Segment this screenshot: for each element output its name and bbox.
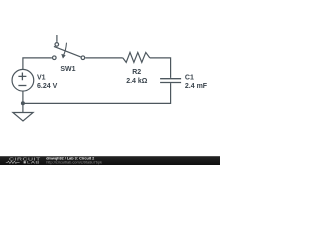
capacitor C1 [160,79,181,83]
wire resistor to top-right corner down to capacitor [150,58,171,78]
label SW1 [60,66,75,73]
wire junction down to ground [22,103,24,112]
wire from V1 top up and right to switch left terminal [23,58,52,70]
label R2 [132,69,141,76]
junction node [21,101,25,105]
resistor R2 [123,52,150,62]
label 2.4 mF [185,83,208,90]
switch SW1 [53,35,85,60]
wire switch right terminal to resistor [85,57,123,59]
wire capacitor down to bottom-right corner and left along bottom rail [23,83,171,103]
wire V1 bottom to junction [22,91,24,103]
label V1 [37,74,46,81]
SW1 top throw stub wire [56,35,58,42]
SW1 right throw terminal [81,56,85,60]
label 2.4 kOhm [126,78,148,85]
SW1 left pole terminal [53,56,57,60]
svg-text:C1: C1 [185,74,194,81]
label C1 [185,74,194,81]
svg-text:R2: R2 [132,69,141,76]
svg-text:http://circuitlab.com/c/9ta8u7: http://circuitlab.com/c/9ta8u7bpk [46,159,102,164]
svg-text:6.24 V: 6.24 V [37,83,58,90]
logo resistor zigzag [6,161,20,163]
V1 minus terminal mark [18,85,26,87]
SW1 actuation arrow arc [64,43,67,55]
V1 plus terminal mark [18,73,26,81]
footer url text [46,159,102,164]
svg-text:SW1: SW1 [60,66,75,73]
label 6.24 V [37,83,58,90]
footer bar [0,156,220,165]
svg-text:2.4 kΩ: 2.4 kΩ [126,78,148,85]
logo square dot [24,161,26,163]
svg-text:V1: V1 [37,74,46,81]
SW1 lever [54,46,81,57]
footer title text [46,157,94,161]
SW1 actuation arrowhead [62,54,66,58]
footer logo CIRCUIT LAB [6,157,41,165]
SW1 top throw terminal [55,43,59,47]
ground [13,113,33,122]
svg-text:LAB: LAB [27,160,40,165]
svg-text:2.4 mF: 2.4 mF [185,83,208,90]
V1 body circle [12,69,34,91]
voltage source V1 [12,69,34,91]
